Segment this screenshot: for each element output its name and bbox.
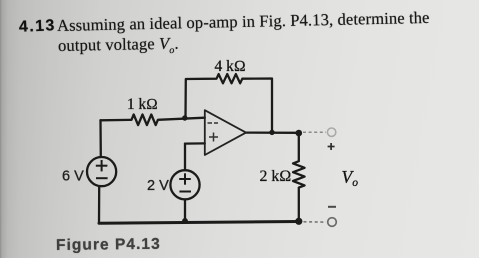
svg-text:2 kΩ: 2 kΩ (260, 168, 292, 185)
svg-text:6 V: 6 V (62, 168, 84, 184)
svg-text:1 kΩ: 1 kΩ (127, 96, 158, 113)
svg-text:Vo: Vo (342, 167, 359, 189)
svg-text:2 V: 2 V (147, 178, 169, 194)
svg-text:4 kΩ: 4 kΩ (215, 58, 246, 75)
